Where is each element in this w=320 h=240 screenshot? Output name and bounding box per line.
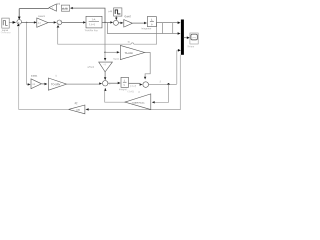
flat gain (left pointing) [125,94,151,110]
svg-text:TO-SRV: TO-SRV [51,83,61,86]
integrator2 block [121,77,129,87]
wire theta vertical up [176,50,178,84]
wire sum4 to integrator2 [108,82,118,84]
wire gain to sum2 [48,22,54,24]
svg-text:u/Tach: u/Tach [87,67,94,69]
gain #1 (left pointing) [49,4,56,11]
wire gain2 to integrator1 [132,22,144,24]
derivative block [61,5,69,11]
node branch on sum1 output [26,22,27,23]
wire theta down branch to flat gain [155,84,169,102]
top source block (load) [114,8,122,16]
svg-text:1-A: 1-A [92,18,96,21]
svg-text:du/dt: du/dt [62,6,68,10]
source block (signal generator) [2,18,9,28]
wire big gain t1 output zigzag down to sum5 [145,53,151,77]
wire tach to sum4 [104,72,106,78]
wire omega to mux input1 [156,22,177,24]
node theta [168,83,170,85]
wire sum5 output to theta node [149,83,177,85]
wire top feedback horizontal [19,8,49,10]
transfer fcn block [86,16,102,28]
sum5 [143,82,149,88]
wire gain#2 output to sum1 bottom [19,27,69,110]
big gain t2 [48,78,66,90]
big gain t1 [120,45,144,59]
wire hop [131,43,134,44]
wire tf-output branch down to mux input2 [107,23,177,34]
integrator1 block [147,17,156,27]
sum4 [103,81,108,86]
svg-text:Transfer Fcn: Transfer Fcn [84,29,98,32]
wire big gain t2 to sum4 [67,83,100,85]
wire outer position feedback from below mux [89,55,181,110]
gain #2 (left pointing) [69,105,85,114]
wire mux to scope [184,37,187,39]
svg-text:Tach1: Tach1 [113,59,120,61]
node after tf [104,22,105,23]
wire sum3 to gain2 [118,22,120,24]
wire branch down to lower chain [27,22,28,84]
gain2 [124,20,133,28]
wire top block down into sum3 [115,16,117,18]
wire position feedback up into sum4 [104,88,107,91]
small gain (lower chain) [31,79,42,89]
svg-text:TA-808: TA-808 [125,52,134,55]
svg-text:s-M: s-M [108,11,112,13]
mux [181,20,184,55]
wire connector segment A [161,23,163,34]
wire integrator2 to sum5 [129,82,140,84]
wire down to tach gain [104,22,106,58]
wire tf output to sum3 [102,21,110,23]
wire top feedback into sum1 (down) [18,9,20,17]
svg-text:Integrator: Integrator [141,27,151,30]
wire sum1 output [22,21,35,23]
sum3 [113,20,118,25]
svg-text:Generator: Generator [1,31,11,34]
svg-text:Scope: Scope [187,45,194,48]
svg-text:4.zer1: 4.zer1 [38,15,45,18]
svg-text:-0.097/+0.1s: -0.097/+0.1s [132,103,146,105]
wire source to sum1 [9,21,13,23]
scope [190,33,198,44]
svg-text:4/49/1: 4/49/1 [31,76,38,78]
sum2 [57,20,62,25]
gain 4.zer1 [37,18,48,27]
wire connector segment B [172,23,174,34]
wire small gain to big gain t2 [42,83,45,85]
wire into derivative (leftward) [70,7,73,9]
wire sum2 to transfer fcn [62,21,83,23]
svg-text:(-1s/2): (-1s/2) [128,91,135,93]
svg-text:Gain2: Gain2 [124,15,131,18]
svg-text:[-1s.2]: [-1s.2] [130,86,136,88]
tach gain (down pointing) [99,62,113,72]
sum1 [17,20,22,25]
node to big gain t1 [104,52,105,53]
wire back-emf feedback up into sum2 [57,25,60,28]
svg-text:1.s+1: 1.s+1 [89,23,96,26]
